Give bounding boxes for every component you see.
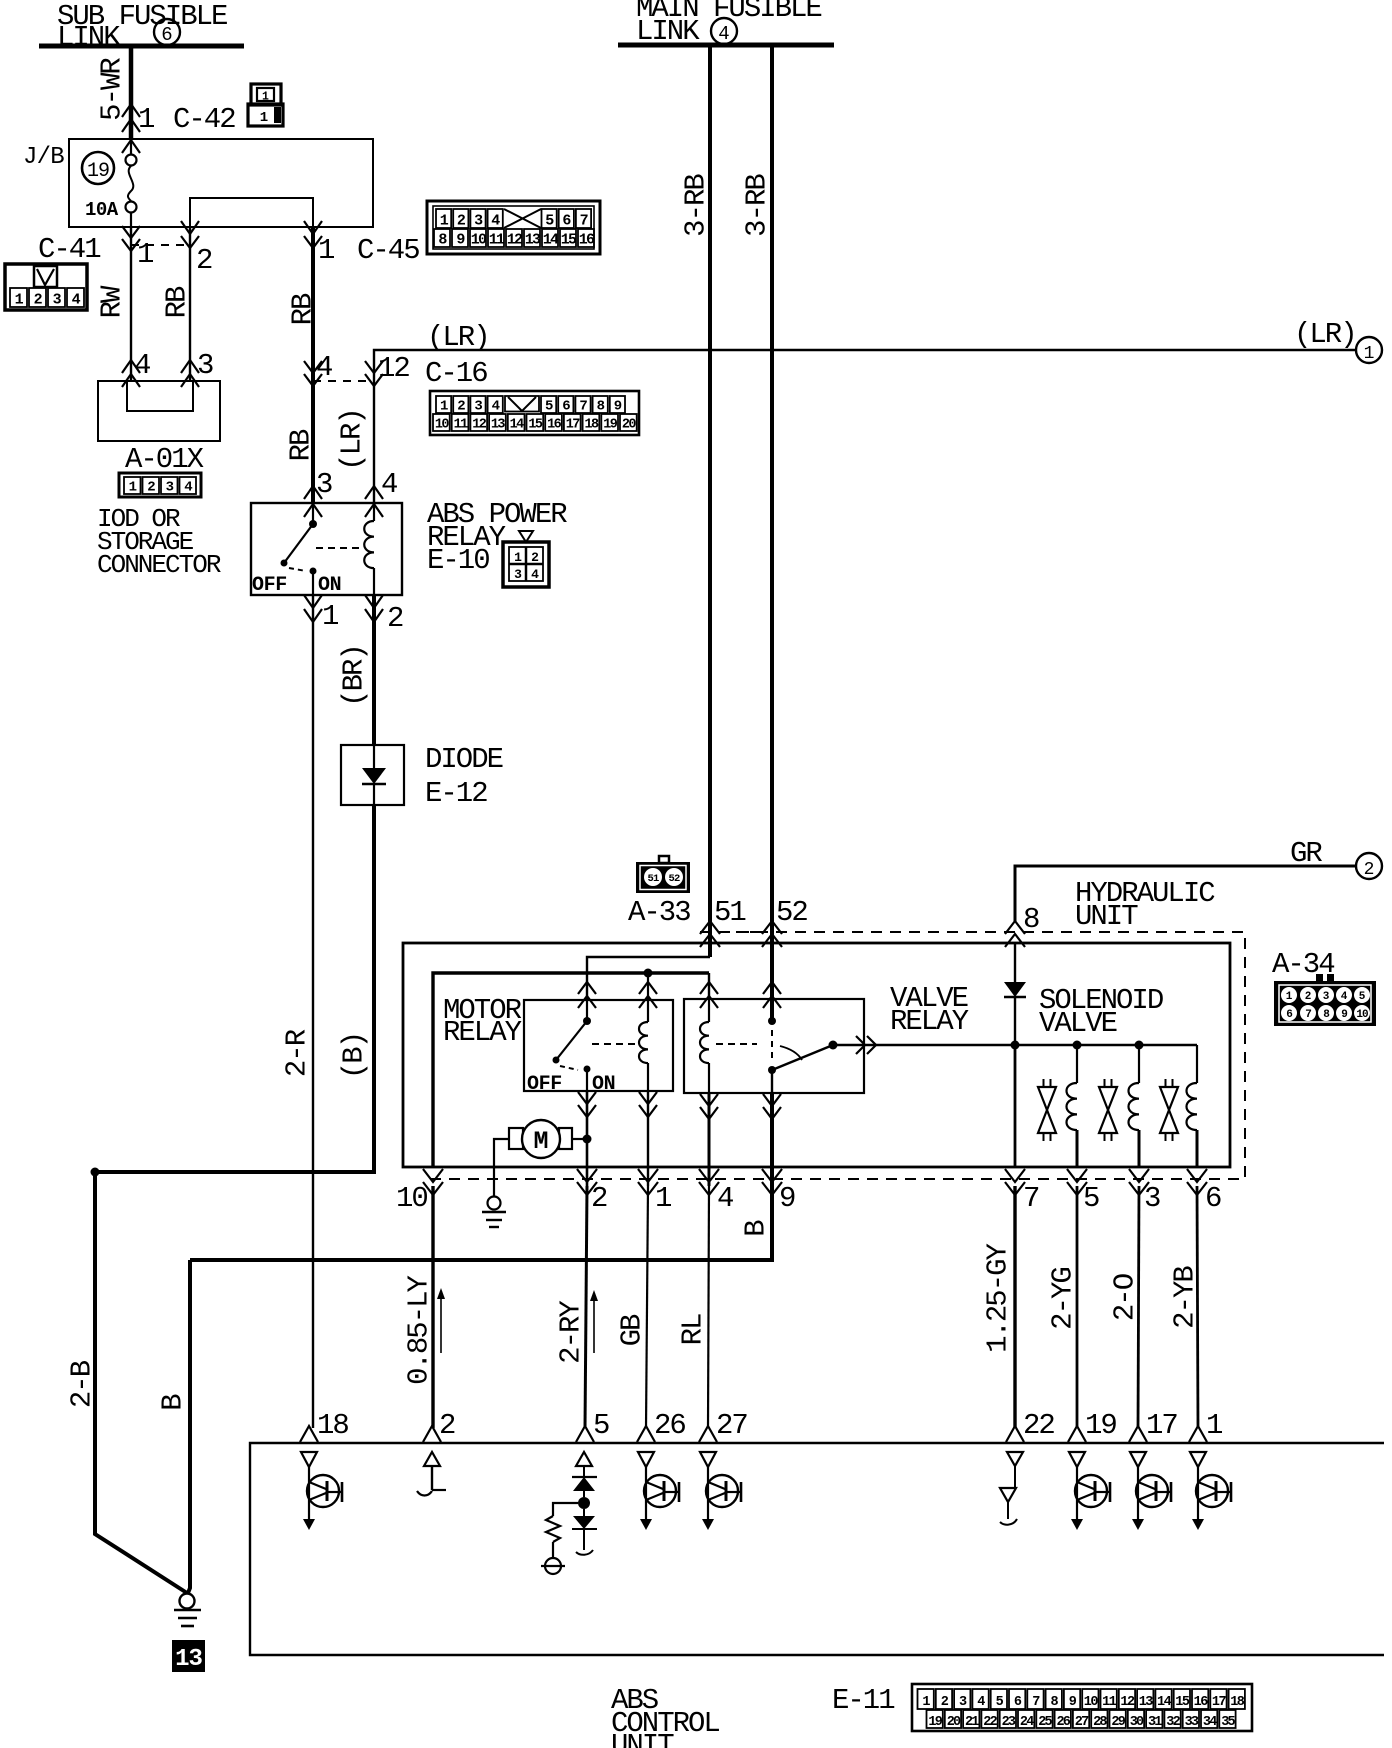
transistor at pin 19 — [1069, 1452, 1110, 1530]
svg-text:17: 17 — [566, 418, 581, 433]
hydraulic valve symbol 1 — [1038, 1079, 1056, 1141]
svg-text:4: 4 — [184, 480, 192, 496]
svg-text:3: 3 — [1323, 991, 1330, 1003]
wire 5-WR — [129, 46, 134, 139]
svg-text:10A: 10A — [85, 199, 119, 221]
connector label C-45 — [357, 234, 419, 267]
solenoid coil 1 — [1067, 1045, 1078, 1167]
svg-text:27: 27 — [716, 1409, 747, 1442]
svg-text:22: 22 — [1023, 1409, 1054, 1442]
svg-text:RW: RW — [96, 285, 129, 318]
svg-text:OFF: OFF — [252, 574, 287, 597]
svg-text:12: 12 — [378, 352, 409, 385]
svg-text:RB: RB — [287, 293, 320, 325]
wire valve relay to pin 9 — [190, 1093, 772, 1260]
svg-text:19: 19 — [87, 160, 109, 183]
connector icon C-42 — [248, 84, 283, 126]
hydraulic crossing arrows pin 4 — [699, 1169, 719, 1195]
svg-text:14: 14 — [1157, 1695, 1172, 1710]
connector icon C-41 housing — [5, 264, 87, 310]
svg-text:1: 1 — [1206, 1409, 1222, 1442]
wire (BR) — [372, 595, 376, 745]
svg-text:2-YB: 2-YB — [1169, 1266, 1202, 1329]
hydraulic crossing arrows pin 5 — [1067, 1169, 1087, 1195]
wire label GB — [616, 1314, 649, 1346]
ABS pin entry 26 — [637, 1426, 655, 1442]
inline connector dash C-41 — [131, 244, 190, 246]
wire GB — [646, 1186, 648, 1428]
wire label 0.85-LY — [403, 1275, 436, 1384]
svg-text:7: 7 — [580, 213, 588, 230]
svg-text:31: 31 — [1148, 1715, 1162, 1730]
wire label 2-O — [1109, 1274, 1142, 1321]
svg-text:1.25-GY: 1.25-GY — [982, 1243, 1015, 1352]
label ON motor relay — [592, 1073, 615, 1096]
wire label 1.25-GY — [982, 1243, 1015, 1352]
svg-text:1: 1 — [1286, 991, 1293, 1003]
wire 2-YG — [1076, 1186, 1079, 1428]
svg-text:B: B — [740, 1220, 773, 1237]
bus bar MAIN FUSIBLE LINK — [618, 43, 834, 48]
svg-text:2: 2 — [34, 292, 43, 309]
connector label A-33 — [628, 896, 690, 929]
hydraulic crossing arrows pin 3 — [1129, 1169, 1149, 1195]
ABS pin entry 17 — [1129, 1426, 1147, 1442]
svg-text:11: 11 — [454, 418, 469, 433]
svg-text:2-R: 2-R — [281, 1029, 314, 1077]
svg-text:8: 8 — [597, 399, 605, 415]
svg-text:4: 4 — [381, 468, 397, 501]
svg-text:12: 12 — [472, 418, 487, 433]
connector crossing arrows C-42 pin 1 — [122, 104, 140, 153]
svg-text:1: 1 — [655, 1182, 671, 1215]
svg-text:5: 5 — [1083, 1182, 1099, 1215]
svg-text:3: 3 — [474, 399, 482, 415]
pin number 6 hydraulic — [1205, 1182, 1221, 1215]
svg-text:16: 16 — [547, 418, 562, 433]
svg-text:5: 5 — [545, 399, 553, 415]
solenoid coil 3 — [1187, 1045, 1198, 1167]
wire label (LR) vertical — [336, 409, 369, 471]
svg-text:11: 11 — [1102, 1695, 1117, 1710]
ABS pin entry 2 — [423, 1426, 441, 1442]
svg-text:34: 34 — [1203, 1715, 1217, 1730]
wire 2-YB — [1197, 1186, 1198, 1428]
wire label 5-WR — [96, 58, 129, 121]
inline connector dash C-16 — [313, 380, 374, 382]
transistor at pin 17 — [1130, 1452, 1171, 1530]
svg-text:1: 1 — [440, 213, 449, 230]
svg-text:3: 3 — [316, 468, 332, 501]
svg-text:UNIT: UNIT — [611, 1729, 674, 1748]
pin number 12 at C-16 — [378, 352, 409, 385]
wire RW — [130, 227, 132, 381]
wire motor to ground — [494, 1139, 509, 1196]
svg-text:27: 27 — [1075, 1715, 1089, 1730]
terminal circled 2 — [1356, 853, 1382, 880]
hydraulic unit dashed enclosure — [430, 932, 1245, 1179]
svg-text:12: 12 — [507, 232, 523, 249]
connector crossing arrows A-01X — [122, 360, 199, 387]
svg-text:4: 4 — [491, 213, 500, 230]
svg-text:GR: GR — [1290, 837, 1322, 870]
relay switch contacts — [281, 503, 318, 595]
valve relay box — [684, 999, 864, 1093]
hydraulic crossing arrows pin 1 — [638, 1169, 658, 1195]
inline connector dash A-33 — [722, 931, 762, 933]
svg-text:4: 4 — [492, 399, 500, 415]
svg-text:1: 1 — [514, 550, 522, 565]
power source label MAIN FUSIBLE LINK — [636, 0, 821, 48]
pin number 52 — [776, 896, 807, 929]
svg-text:3-RB: 3-RB — [680, 174, 713, 237]
svg-text:E-12: E-12 — [425, 777, 487, 810]
J/B internal branch wire — [181, 198, 322, 234]
svg-text:2: 2 — [439, 1409, 455, 1442]
motor relay switch — [553, 1000, 592, 1091]
svg-text:29: 29 — [1111, 1715, 1125, 1730]
svg-text:19: 19 — [928, 1715, 942, 1730]
svg-text:15: 15 — [561, 232, 577, 249]
wire label (LR) top — [427, 321, 489, 354]
wire label 2-YG — [1047, 1268, 1080, 1330]
wire (LR) horizontal to terminal 1 — [374, 350, 1356, 503]
svg-text:13: 13 — [1139, 1695, 1154, 1710]
wire label B right — [740, 1220, 773, 1237]
svg-text:5: 5 — [545, 213, 554, 230]
valve relay output arrows — [856, 1036, 876, 1054]
connector icon E-11 — [912, 1684, 1252, 1731]
svg-text:51: 51 — [647, 873, 659, 885]
svg-text:20: 20 — [622, 418, 637, 433]
svg-text:7: 7 — [1023, 1182, 1039, 1215]
wire label B left — [157, 1394, 190, 1411]
svg-text:4: 4 — [531, 567, 539, 582]
svg-text:(BR): (BR) — [338, 645, 371, 707]
wire 2-B — [95, 1172, 187, 1593]
svg-text:30: 30 — [1130, 1715, 1144, 1730]
pin number 22 at ABS control unit — [1023, 1409, 1054, 1442]
svg-text:8: 8 — [1023, 903, 1039, 936]
svg-text:J/B: J/B — [23, 144, 64, 171]
wire 2-RY — [585, 1186, 587, 1428]
valve relay coil — [700, 999, 709, 1093]
svg-text:2: 2 — [1364, 860, 1375, 880]
motor relay crossing arrows top — [578, 982, 657, 1008]
ABS pin entry 27 — [699, 1426, 717, 1442]
pin number 1 at C-45 — [318, 234, 334, 267]
svg-text:1: 1 — [260, 110, 268, 126]
label MOTOR RELAY — [443, 994, 522, 1049]
wire label 3-RB left — [680, 174, 713, 237]
svg-text:3: 3 — [166, 480, 174, 496]
svg-text:4: 4 — [72, 292, 81, 309]
wire 2-R — [312, 595, 314, 1428]
label SOLENOID VALVE — [1039, 984, 1163, 1040]
label OFF motor relay — [527, 1073, 562, 1096]
label ABS POWER RELAY E-10 — [427, 498, 567, 577]
pin number 3 at A-01X — [197, 349, 213, 382]
wire RL — [708, 1186, 709, 1428]
connector label E-11 — [832, 1684, 894, 1717]
diode hydraulic unit — [1004, 943, 1026, 1045]
terminal circled 1 — [1356, 337, 1382, 364]
wire pin 51 to motor relay switch — [587, 957, 710, 1000]
svg-text:10: 10 — [1084, 1695, 1099, 1710]
valve relay crossing arrows bottom — [700, 1094, 781, 1119]
motor relay actuation dashed link — [592, 1043, 636, 1045]
connector crossing arrows relay E-10 pin 4 — [365, 486, 383, 517]
svg-text:E-10: E-10 — [427, 544, 489, 577]
diode E-12 box — [341, 745, 404, 805]
label HYDRAULIC UNIT — [1075, 877, 1215, 933]
junction dot 2-B — [91, 1168, 100, 1177]
input symbol at pin 2 — [417, 1452, 446, 1496]
flow arrow 2-RY — [590, 1290, 598, 1353]
wire motor relay coil to pin 1 — [647, 1091, 649, 1186]
pin number 8 — [1023, 903, 1039, 936]
svg-text:(LR): (LR) — [1294, 318, 1356, 351]
circled fuse number 19 — [82, 152, 114, 184]
wire RB from C-45 — [311, 227, 315, 503]
svg-text:B: B — [157, 1394, 190, 1411]
svg-text:1: 1 — [318, 234, 334, 267]
connector icon C-16 — [430, 391, 639, 435]
pin number 18 at ABS control unit — [317, 1409, 348, 1442]
svg-text:24: 24 — [1020, 1715, 1034, 1730]
svg-text:9: 9 — [779, 1182, 795, 1215]
svg-text:5-WR: 5-WR — [96, 58, 129, 121]
relay box ABS POWER RELAY E-10 — [251, 503, 402, 595]
svg-text:14: 14 — [543, 232, 559, 249]
wire 0.85-LY — [431, 1186, 434, 1428]
label J/B — [23, 144, 64, 171]
relay actuation dashed link — [316, 547, 362, 549]
wire solenoid feed from valve relay — [836, 1044, 1197, 1046]
svg-text:4: 4 — [717, 1182, 733, 1215]
svg-text:2-O: 2-O — [1109, 1274, 1142, 1321]
svg-text:2: 2 — [531, 550, 539, 565]
svg-text:2: 2 — [457, 399, 465, 415]
pin number 3 hydraulic — [1144, 1182, 1160, 1215]
svg-text:52: 52 — [776, 896, 807, 929]
wire 3-RB left — [708, 45, 712, 957]
svg-text:RB: RB — [161, 286, 194, 318]
isolation symbol at pin 22 — [1000, 1452, 1023, 1525]
pin number 10 — [396, 1182, 427, 1215]
svg-text:21: 21 — [965, 1715, 979, 1730]
wire label RB — [161, 286, 194, 318]
connector crossing arrows below relay pin 1 — [304, 595, 322, 622]
svg-text:2-RY: 2-RY — [555, 1301, 588, 1364]
svg-text:2: 2 — [147, 480, 155, 496]
svg-text:1: 1 — [262, 91, 269, 104]
connector label C-42 — [173, 103, 235, 136]
svg-text:3: 3 — [53, 292, 62, 309]
wire label 3-RB right — [741, 174, 774, 237]
pin number 9 hydraulic — [779, 1182, 795, 1215]
svg-text:33: 33 — [1185, 1715, 1199, 1730]
pin number 2 at C-41 — [196, 244, 212, 277]
svg-text:1: 1 — [15, 292, 24, 309]
svg-text:6: 6 — [562, 213, 571, 230]
ABS pin entry 22 — [1006, 1426, 1024, 1442]
svg-text:4: 4 — [1341, 991, 1348, 1003]
wire 2-O — [1138, 1186, 1139, 1428]
wire label (BR) — [338, 645, 371, 707]
hydraulic crossing arrows pin 2 — [577, 1169, 597, 1195]
svg-text:51: 51 — [714, 896, 745, 929]
connector crossing arrows C-16 pin 12 — [365, 361, 383, 386]
ABS pin entry 5 — [576, 1426, 594, 1442]
wire label 2-RY — [555, 1301, 588, 1364]
svg-text:9: 9 — [614, 399, 622, 415]
svg-text:16: 16 — [579, 232, 595, 249]
pin number 1 at C-42 — [138, 103, 154, 136]
wire valve relay coil to pin 4 — [708, 1093, 711, 1186]
svg-text:4: 4 — [316, 351, 332, 384]
transistor at pin 26 — [638, 1452, 679, 1530]
svg-text:1: 1 — [138, 103, 154, 136]
svg-text:RELAY: RELAY — [443, 1016, 522, 1049]
svg-text:10: 10 — [396, 1182, 427, 1215]
svg-text:2: 2 — [1305, 991, 1312, 1003]
wire GR to terminal 2 — [1015, 866, 1356, 922]
svg-text:2: 2 — [591, 1182, 607, 1215]
valve relay actuation dashed link — [716, 1043, 757, 1045]
svg-text:17: 17 — [1212, 1695, 1227, 1710]
ground main — [174, 1594, 201, 1627]
svg-text:1: 1 — [440, 399, 448, 415]
pin number 1 below relay — [322, 600, 338, 633]
wire motor relay to pump motor — [586, 1091, 589, 1186]
svg-text:35: 35 — [1221, 1715, 1235, 1730]
pin number 19 at ABS control unit — [1085, 1409, 1116, 1442]
svg-text:26: 26 — [654, 1409, 685, 1442]
circled refnum 4 — [711, 18, 737, 45]
connector label C-16 — [425, 357, 487, 390]
svg-text:1: 1 — [137, 238, 153, 271]
svg-text:GB: GB — [616, 1314, 649, 1346]
wire 3-RB right — [770, 45, 774, 1021]
transistor at pin 27 — [700, 1452, 741, 1530]
junction block J/B box — [69, 139, 373, 227]
svg-text:16: 16 — [1194, 1695, 1209, 1710]
ground motor — [482, 1197, 506, 1228]
svg-text:15: 15 — [1175, 1695, 1190, 1710]
pin number 17 at ABS control unit — [1146, 1409, 1177, 1442]
connector icon A-01X — [119, 473, 201, 497]
svg-text:ON: ON — [318, 574, 341, 597]
hydraulic valve symbol 2 — [1099, 1079, 1117, 1141]
svg-text:19: 19 — [603, 418, 618, 433]
wire label 2-YB — [1169, 1266, 1202, 1329]
svg-text:C-45: C-45 — [357, 234, 419, 267]
svg-text:3-RB: 3-RB — [741, 174, 774, 237]
svg-text:6: 6 — [1205, 1182, 1221, 1215]
ABS pin entry 1 — [1189, 1426, 1207, 1442]
wire RB C-41 pin2 — [189, 227, 191, 381]
fuse rating label 10A — [85, 199, 119, 221]
svg-text:3: 3 — [514, 567, 522, 582]
motor relay crossing arrows bottom — [578, 1092, 657, 1117]
connector label A-34 — [1272, 948, 1334, 981]
svg-text:3: 3 — [474, 213, 483, 230]
junction dots solenoid bus — [1011, 1041, 1144, 1050]
hydraulic crossing arrows pin 6 — [1187, 1169, 1207, 1195]
svg-text:OFF: OFF — [527, 1073, 562, 1096]
connector crossing arrows C-16 pin 4 — [304, 361, 322, 386]
connector label C-41 — [38, 233, 100, 266]
valve relay crossing arrows top — [700, 982, 781, 1008]
hydraulic crossing arrows pin 9 — [762, 1169, 782, 1195]
pin number 2 hydraulic — [591, 1182, 607, 1215]
pin number 4 at relay — [381, 468, 397, 501]
svg-text:18: 18 — [584, 418, 599, 433]
ABS pin entry 18 — [300, 1426, 318, 1442]
junction dot motor relay coil — [644, 969, 653, 978]
svg-text:3: 3 — [197, 349, 213, 382]
svg-text:19: 19 — [1085, 1409, 1116, 1442]
zener diode network at pin 5 — [541, 1452, 597, 1574]
label IOD OR STORAGE CONNECTOR — [97, 504, 221, 580]
svg-text:RL: RL — [677, 1314, 710, 1345]
svg-text:2: 2 — [457, 213, 466, 230]
svg-text:32: 32 — [1166, 1715, 1180, 1730]
wire label GR — [1290, 837, 1322, 870]
svg-text:LINK: LINK — [57, 21, 121, 54]
label DIODE E-12 — [425, 743, 503, 810]
pin number 27 at ABS control unit — [716, 1409, 747, 1442]
connector crossing arrows pin 8 — [1005, 921, 1025, 947]
connector crossing arrows A-33 pin 52 — [762, 921, 782, 947]
svg-text:13: 13 — [175, 1646, 202, 1673]
transistor at pin 18 — [301, 1452, 342, 1530]
svg-text:25: 25 — [1038, 1715, 1052, 1730]
motor relay box — [524, 1000, 673, 1091]
valve relay switch — [768, 1017, 838, 1093]
svg-text:5: 5 — [593, 1409, 609, 1442]
box IOD storage connector A-01X — [98, 381, 220, 441]
wire pin 7 — [1014, 1045, 1017, 1167]
transistor at pin 1 — [1190, 1452, 1231, 1530]
wire RB lower — [285, 429, 318, 461]
pin number 5 hydraulic — [1083, 1182, 1099, 1215]
pump motor M — [509, 1120, 572, 1158]
flow arrow 0.85-LY — [437, 1288, 445, 1353]
label VALVE RELAY — [890, 982, 969, 1038]
svg-text:0.85-LY: 0.85-LY — [403, 1275, 436, 1384]
svg-text:17: 17 — [1146, 1409, 1177, 1442]
svg-text:13: 13 — [525, 232, 541, 249]
wire coil common rail to pin 10 — [433, 973, 709, 1167]
svg-text:UNIT: UNIT — [1075, 900, 1138, 933]
connector crossing arrows C-41 pin 2 — [181, 236, 199, 248]
bus bar SUB FUSIBLE LINK — [39, 44, 244, 49]
ground refnum 13 — [172, 1640, 205, 1673]
svg-text:7: 7 — [579, 399, 587, 415]
junction dot motor to wire 2 — [583, 1135, 592, 1144]
pin number 7 hydraulic — [1023, 1182, 1039, 1215]
connector icon A-34 — [1274, 974, 1376, 1026]
svg-text:1: 1 — [129, 480, 137, 496]
label ABS CONTROL UNIT — [611, 1684, 719, 1748]
svg-text:2: 2 — [196, 244, 212, 277]
svg-text:18: 18 — [317, 1409, 348, 1442]
pin number 5 at ABS control unit — [593, 1409, 609, 1442]
svg-text:VALVE: VALVE — [1039, 1007, 1117, 1040]
pin number 26 at ABS control unit — [654, 1409, 685, 1442]
